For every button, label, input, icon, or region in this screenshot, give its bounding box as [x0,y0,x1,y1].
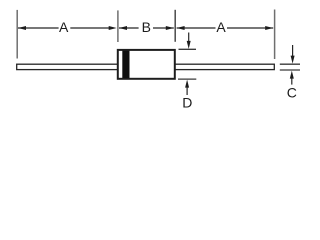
arrowhead left of A1 [18,26,26,30]
extension line body right edge [174,10,176,42]
right lead wire [175,64,274,69]
dimension line A right: segments [177,27,216,29]
arrowhead left of B [119,26,127,30]
dim D upper tick (body top extended) [179,48,197,50]
svg-text:A: A [216,19,226,35]
arrowhead right of A2 [265,26,273,30]
left lead wire [17,64,118,69]
arrowhead left of A2 [177,26,185,30]
extension line middle (body left edge) [117,10,119,42]
svg-text:D: D [182,95,192,111]
dim C lower tick (lead bottom extended) [280,69,300,71]
svg-text:B: B [142,19,151,35]
extension line left (lead tip, dim A left) [16,10,18,59]
diode body D1 [118,50,175,79]
arrowhead right of B [166,26,174,30]
dim C upper arrow (down) [292,45,294,57]
dimension line B: segments [119,27,139,29]
dim D upper arrow (down) [188,33,190,43]
svg-text:C: C [287,85,297,101]
dim D lower tick (body bottom extended) [178,78,196,80]
arrowhead right of A1 [109,26,117,30]
cathode band [122,51,129,79]
dim D lower arrow (up) [186,87,188,95]
dim C lower arrow (up) [291,78,293,84]
svg-text:A: A [59,19,69,35]
extension line right (lead tip, dim A right) [274,10,276,60]
dimension line A left: segments [18,27,59,29]
dim C upper tick (lead top extended) [280,63,300,65]
